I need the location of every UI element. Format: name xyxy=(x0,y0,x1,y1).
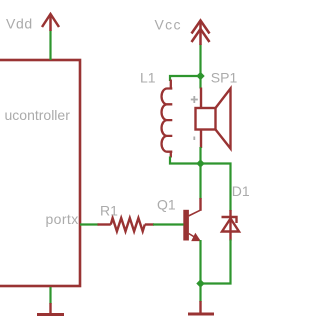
svg-text:Vcc: Vcc xyxy=(155,17,182,33)
svg-text:ucontroller: ucontroller xyxy=(5,107,71,123)
wire D1 to node C xyxy=(201,240,231,284)
wire L1 to node B xyxy=(170,157,201,164)
diode D1 xyxy=(222,210,240,241)
ucontroller U1 xyxy=(0,60,80,286)
wire Q1 emitter to node C xyxy=(199,240,201,284)
ground right xyxy=(188,301,214,314)
wire node B to Q1 collector xyxy=(199,164,201,200)
speaker plus mark xyxy=(191,96,198,103)
svg-text:SP1: SP1 xyxy=(211,70,238,86)
node A junction xyxy=(196,72,204,80)
svg-text:portx: portx xyxy=(46,211,79,227)
speaker SP1 xyxy=(196,88,231,149)
wire ucontroller to ground xyxy=(49,287,51,304)
resistor R1 xyxy=(98,218,155,231)
supply Vcc xyxy=(192,21,210,46)
wire node A to L1 xyxy=(170,76,201,81)
svg-text:Vdd: Vdd xyxy=(6,16,33,32)
svg-text:D1: D1 xyxy=(232,183,250,199)
node B junction xyxy=(196,159,204,167)
svg-text:L1: L1 xyxy=(140,70,156,86)
ground left xyxy=(37,303,64,315)
svg-text:Q1: Q1 xyxy=(157,197,176,213)
svg-text:R1: R1 xyxy=(100,203,118,219)
speaker minus mark xyxy=(193,137,195,141)
wire portx to R1 xyxy=(80,223,99,225)
wire node B to D1 xyxy=(201,164,231,212)
transistor Q1 xyxy=(183,198,200,241)
inductor L1 xyxy=(162,80,173,158)
wire SP1 to node B xyxy=(199,147,201,164)
wire R1 to Q1 base xyxy=(153,223,184,225)
wire Vdd to ucontroller xyxy=(49,30,51,60)
node C junction xyxy=(196,279,204,287)
supply Vdd xyxy=(42,14,59,31)
wire node C to ground xyxy=(199,284,201,303)
wire node A to SP1 xyxy=(199,76,201,89)
wire Vcc to node A xyxy=(199,44,201,76)
